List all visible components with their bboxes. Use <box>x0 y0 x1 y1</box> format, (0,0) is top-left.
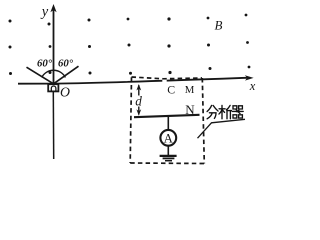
svg-text:60°: 60° <box>37 58 53 70</box>
x-axis arrowhead <box>245 75 254 80</box>
hole C gap in top plate <box>162 80 166 84</box>
analyzer leader line <box>198 119 246 138</box>
field dots row 2 <box>9 41 249 48</box>
y-axis arrowhead <box>50 4 56 12</box>
field dots row 3 <box>9 66 250 75</box>
svg-text:d: d <box>135 94 142 109</box>
svg-text:x: x <box>249 79 256 93</box>
char 器 <box>233 106 237 109</box>
angle arc over both 60-degree angles <box>42 70 66 77</box>
dashed analyzer box right edge <box>202 78 204 164</box>
dashed analyzer box bottom edge <box>130 162 204 165</box>
ground <box>160 155 177 157</box>
field dots row 1 (B out of page) <box>9 14 248 26</box>
d dimension arrow lower part <box>138 107 140 115</box>
wire plate N to ammeter <box>167 116 169 130</box>
source inner arch <box>51 86 56 91</box>
char 析 <box>221 105 223 118</box>
dashed analyzer box left edge <box>130 77 131 163</box>
wire ammeter to ground <box>167 145 169 155</box>
right 60-degree line <box>54 66 79 84</box>
dashed analyzer box top edge <box>132 77 203 79</box>
x-axis <box>18 78 249 84</box>
d dimension arrow upper part <box>138 85 140 95</box>
plate N <box>134 115 200 117</box>
svg-text:M: M <box>185 84 195 96</box>
analyzer label 分析器 drawn as strokes <box>207 105 243 118</box>
left 60-degree line <box>27 67 54 84</box>
particle source square at origin <box>48 84 58 91</box>
svg-text:C: C <box>167 82 175 96</box>
svg-text:y: y <box>40 4 49 20</box>
negative y-axis below origin square <box>52 92 54 160</box>
ammeter A <box>160 130 176 146</box>
y-axis <box>53 9 55 92</box>
svg-text:60°: 60° <box>58 58 74 70</box>
svg-text:N: N <box>185 102 195 117</box>
svg-text:O: O <box>60 84 70 99</box>
svg-text:A: A <box>164 132 174 146</box>
svg-text:B: B <box>215 17 223 32</box>
char 分 <box>207 105 212 111</box>
